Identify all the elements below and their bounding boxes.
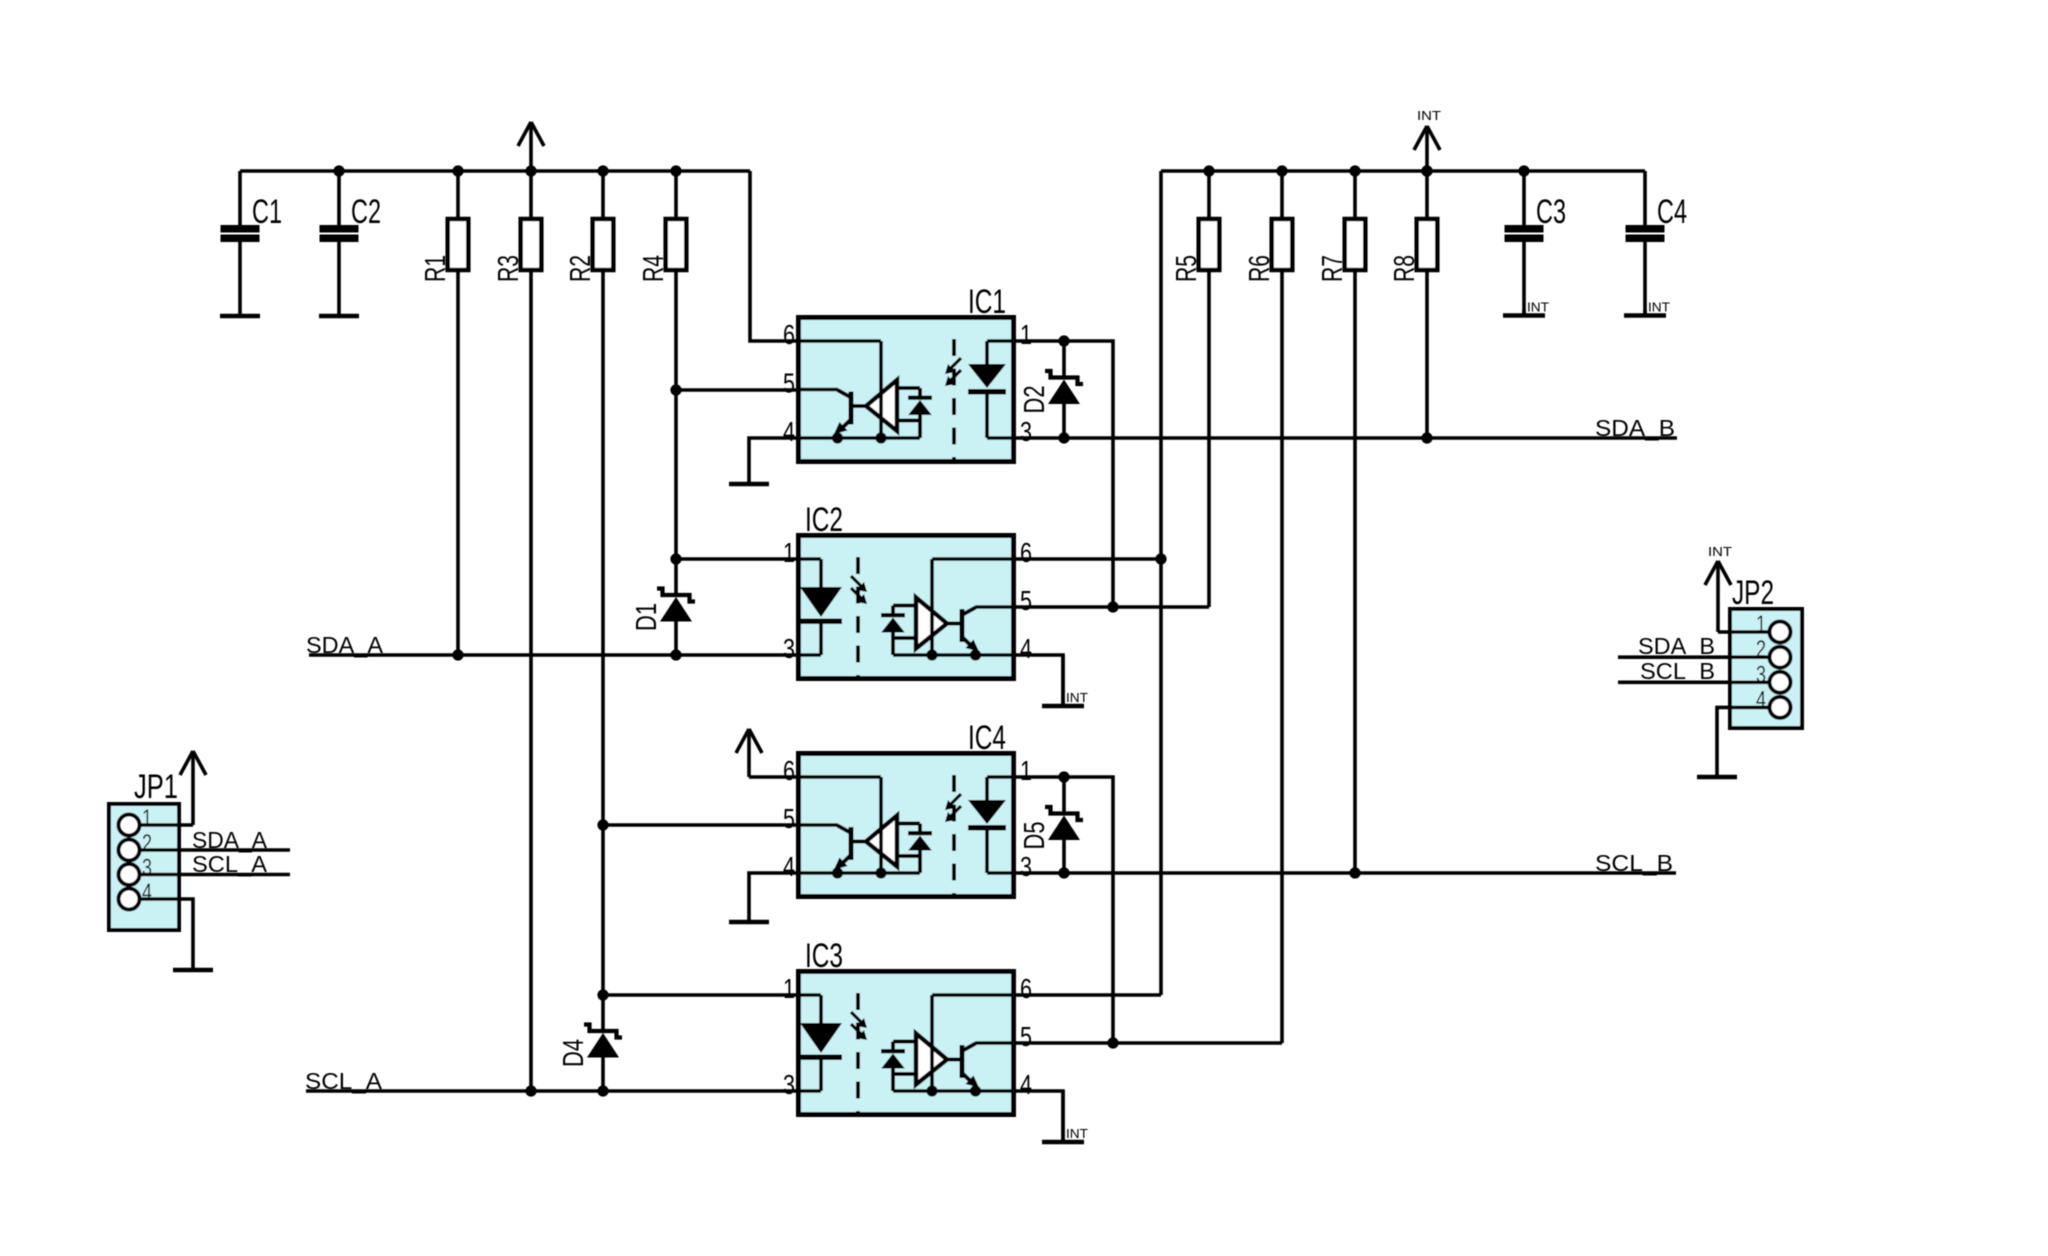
svg-text:D2: D2 <box>1019 386 1051 414</box>
wire IC4 pin4 to ground <box>749 873 796 920</box>
svg-text:4: 4 <box>1756 686 1766 713</box>
wire R1 top stem <box>452 165 463 220</box>
connector JP1 <box>109 768 179 930</box>
diode D2 <box>1019 341 1083 438</box>
ground INT IC2 <box>1061 655 1065 706</box>
svg-text:R4: R4 <box>638 255 670 282</box>
power VCC_A arrow at IC4 pin6 <box>736 729 796 777</box>
svg-text:SCL_A: SCL_A <box>305 1068 383 1094</box>
ground JP1 <box>173 968 213 973</box>
IC3 internal pin5 wire <box>975 1041 1014 1045</box>
wire R8 top stem <box>1421 165 1432 220</box>
IC3 internal photodiode and amplifier <box>881 1034 947 1085</box>
wire IC1 pin1 to IC2 pin5 column <box>1016 335 1119 612</box>
svg-text:INT: INT <box>1066 691 1088 705</box>
net SCL_B stub at JP2 pin3 <box>1618 658 1770 684</box>
wire IC3 pin4 to INT ground <box>1014 1091 1063 1140</box>
svg-text:D4: D4 <box>558 1039 590 1067</box>
svg-text:3: 3 <box>783 633 795 664</box>
svg-text:R5: R5 <box>1171 255 1203 282</box>
power VCC_A arrow at JP1 pin1 <box>140 751 207 825</box>
svg-text:3: 3 <box>142 855 152 882</box>
resistor R1 <box>420 219 468 282</box>
IC4 internal LED <box>968 777 1014 873</box>
wire R2 to IC4 pin5 and IC3 pin1 <box>597 269 608 1001</box>
IC3 pin numbers <box>783 973 1032 1100</box>
wire R6 top stem <box>1276 165 1287 220</box>
svg-text:1: 1 <box>783 973 795 1004</box>
net SDA_A stub at JP1 pin2 <box>140 827 291 853</box>
wire R3 top stem <box>525 165 536 220</box>
IC2 internal pin4 wire <box>893 638 1014 661</box>
net SDA_B wire <box>1016 415 1677 441</box>
IC2 internal LED <box>799 559 843 655</box>
wire VCC_A rail to IC1 pin6 <box>750 171 796 341</box>
wire R8 to SDA_B <box>1421 269 1432 444</box>
IC2 internal phototransistor <box>947 608 979 656</box>
svg-text:INT: INT <box>1527 301 1549 315</box>
net SCL_A wire <box>305 1068 796 1094</box>
connector JP2 <box>1730 574 1802 728</box>
svg-text:6: 6 <box>1020 973 1032 1004</box>
net SDA_B stub at JP2 pin2 <box>1618 633 1770 659</box>
ground IC1 <box>729 482 769 487</box>
wire R5 top stem <box>1203 165 1214 220</box>
ground C1 <box>220 314 260 319</box>
power VCC_A arrow <box>529 122 533 171</box>
svg-text:JP1: JP1 <box>134 768 178 806</box>
wire JP2 pin4 to ground <box>1717 707 1770 775</box>
wire IC3 pin1 to R2/D4 <box>603 993 796 997</box>
wire IC2 pin5 to R5 <box>1016 605 1209 609</box>
svg-text:SCL_B: SCL_B <box>1640 658 1715 684</box>
wire IC1 pin4 to ground <box>749 438 796 482</box>
svg-text:C2: C2 <box>351 193 381 231</box>
capacitor C3 <box>1505 165 1567 314</box>
wire IC4 pin1 to IC3 pin5 column <box>1016 771 1119 1048</box>
diode D5 <box>1019 777 1083 873</box>
svg-text:4: 4 <box>142 879 152 906</box>
svg-text:5: 5 <box>783 368 795 399</box>
svg-text:JP2: JP2 <box>1732 574 1774 612</box>
IC1 internal LED <box>968 341 1014 438</box>
svg-text:R6: R6 <box>1244 255 1276 282</box>
svg-text:INT: INT <box>1648 301 1670 315</box>
IC2 internal light barrier <box>851 557 867 677</box>
svg-text:3: 3 <box>1020 416 1032 447</box>
svg-text:INT: INT <box>1066 1127 1088 1141</box>
wire R4 to IC1 pin5 and IC2 pin1 <box>670 269 681 565</box>
svg-text:R8: R8 <box>1389 255 1421 282</box>
svg-text:1: 1 <box>783 537 795 568</box>
net SDA_A wire <box>306 632 796 658</box>
wire IC2 pin1 to R4/D1 <box>676 557 796 561</box>
IC2 internal photodiode and amplifier <box>881 598 947 649</box>
ground JP2 <box>1697 775 1737 780</box>
svg-text:R3: R3 <box>493 255 525 282</box>
svg-text:C3: C3 <box>1536 193 1566 231</box>
node C2 junction <box>333 165 344 176</box>
IC3 internal phototransistor <box>947 1044 979 1092</box>
IC4 internal pin4 wire <box>799 856 921 879</box>
wire R4 top stem <box>670 165 681 220</box>
IC2 internal pin5 wire <box>975 605 1014 609</box>
svg-text:2: 2 <box>1756 636 1766 663</box>
IC1 internal photodiode and amplifier <box>866 380 932 431</box>
svg-text:INT: INT <box>1708 544 1732 559</box>
resistor R6 <box>1244 219 1292 282</box>
net SCL_A stub at JP1 pin3 <box>140 851 291 877</box>
wire IC3 pin5 to R6 <box>1016 1041 1282 1045</box>
wire R6 to IC3 pin5 <box>1280 269 1284 1043</box>
svg-text:4: 4 <box>783 851 795 882</box>
svg-text:1: 1 <box>1020 319 1032 350</box>
svg-text:1: 1 <box>1756 611 1766 638</box>
svg-text:C1: C1 <box>252 193 282 231</box>
svg-text:1: 1 <box>142 805 152 832</box>
diode D4 <box>558 995 622 1091</box>
svg-text:5: 5 <box>1020 585 1032 616</box>
power VCC_INT arrow <box>1414 108 1441 177</box>
svg-text:6: 6 <box>783 755 795 786</box>
IC1 internal light barrier <box>945 339 961 460</box>
capacitor C4 <box>1626 171 1688 314</box>
IC4 internal photodiode and amplifier <box>866 816 932 867</box>
svg-text:3: 3 <box>1020 851 1032 882</box>
wire VCC_INT top rail <box>1161 171 1645 995</box>
node D4 anode on SCL_A <box>597 1085 608 1096</box>
ground INT C3 <box>1522 310 1526 316</box>
resistor R2 <box>565 219 613 282</box>
node D5 anode on SCL_B <box>1058 867 1069 878</box>
IC3 internal pin6 wire <box>926 995 1013 1097</box>
svg-text:SCL_A: SCL_A <box>192 851 268 877</box>
svg-text:6: 6 <box>783 319 795 350</box>
wire IC1 pin5 to R4 column <box>676 388 796 392</box>
wire R7 top stem <box>1349 165 1360 220</box>
wire IC2 pin6 to VCC_INT column <box>1016 553 1167 564</box>
svg-text:2: 2 <box>142 830 152 857</box>
svg-text:3: 3 <box>783 1069 795 1100</box>
node D2 anode on SDA_B <box>1058 432 1069 443</box>
svg-text:R7: R7 <box>1317 255 1349 282</box>
wire R3 to SCL_A <box>525 269 536 1097</box>
wire R5 to IC2 pin5 <box>1207 269 1211 607</box>
svg-text:IC1: IC1 <box>968 283 1006 321</box>
svg-text:C4: C4 <box>1657 193 1687 231</box>
svg-text:4: 4 <box>1020 633 1032 664</box>
svg-text:1: 1 <box>1020 755 1032 786</box>
svg-text:4: 4 <box>1020 1069 1032 1100</box>
resistor R7 <box>1317 219 1365 282</box>
op-amp IC2 optocoupler box <box>799 501 1014 679</box>
svg-text:SDA_B: SDA_B <box>1595 415 1675 441</box>
IC3 internal LED <box>799 995 843 1091</box>
wire VCC_A top rail <box>240 169 750 173</box>
capacitor C2 <box>320 171 382 315</box>
IC4 internal light barrier <box>945 775 961 895</box>
svg-text:SDA_A: SDA_A <box>192 827 268 853</box>
IC1 internal pin6 wire <box>799 341 887 444</box>
IC1 internal pin4 wire <box>799 421 921 444</box>
IC2 pin numbers <box>783 537 1032 664</box>
op-amp IC3 optocoupler box <box>799 937 1014 1115</box>
wire IC4 pin5 to R2 column <box>603 823 796 827</box>
wire R1 to SDA_A <box>452 269 463 661</box>
svg-text:D5: D5 <box>1019 822 1051 850</box>
svg-text:6: 6 <box>1020 537 1032 568</box>
IC3 internal light barrier <box>851 993 867 1113</box>
svg-text:R1: R1 <box>420 255 452 282</box>
ground C2 <box>319 314 359 319</box>
svg-text:D1: D1 <box>631 603 663 631</box>
IC4 pin numbers <box>783 755 1032 882</box>
svg-text:R2: R2 <box>565 255 597 282</box>
IC4 internal pin6 wire <box>799 777 887 879</box>
wire IC2 pin4 to INT ground <box>1014 655 1063 704</box>
IC1 pin numbers <box>783 319 1032 447</box>
ground INT IC3 <box>1061 1091 1065 1142</box>
svg-text:IC3: IC3 <box>805 937 843 975</box>
svg-text:SDA_B: SDA_B <box>1638 633 1715 659</box>
power VCC_INT arrow at JP2 pin1 <box>1705 544 1770 632</box>
IC4 internal pin5 wire <box>799 823 839 827</box>
resistor R8 <box>1389 219 1437 282</box>
svg-text:IC4: IC4 <box>968 719 1006 757</box>
op-amp IC4 optocoupler box <box>799 719 1014 897</box>
diode D1 <box>631 559 695 655</box>
svg-text:4: 4 <box>783 416 795 447</box>
ground IC4 <box>729 920 769 925</box>
svg-text:SCL_B: SCL_B <box>1595 850 1673 876</box>
resistor R3 <box>493 219 541 282</box>
wire R7 to SCL_B <box>1349 269 1360 879</box>
IC2 internal pin6 wire <box>926 559 1013 661</box>
ground INT C4 <box>1643 310 1647 316</box>
net SCL_B wire <box>1016 850 1676 876</box>
op-amp IC1 optocoupler box <box>799 283 1014 462</box>
svg-text:3: 3 <box>1756 661 1766 688</box>
resistor R4 <box>638 219 686 282</box>
resistor R5 <box>1171 219 1219 282</box>
IC1 internal phototransistor <box>834 390 866 438</box>
svg-text:INT: INT <box>1417 108 1441 123</box>
svg-text:SDA_A: SDA_A <box>306 632 384 658</box>
svg-text:5: 5 <box>1020 1021 1032 1052</box>
IC3 internal pin4 wire <box>893 1074 1014 1097</box>
svg-text:IC2: IC2 <box>805 501 843 539</box>
capacitor C1 <box>221 171 283 315</box>
wire IC3 pin6 to VCC_INT column <box>1016 993 1161 997</box>
svg-text:5: 5 <box>783 803 795 834</box>
node D1 anode on SDA_A <box>670 649 681 660</box>
wire R2 top stem <box>597 165 608 220</box>
IC4 internal phototransistor <box>834 826 866 874</box>
IC1 internal pin5 wire <box>799 388 839 392</box>
wire JP1 pin4 to ground <box>140 899 194 968</box>
